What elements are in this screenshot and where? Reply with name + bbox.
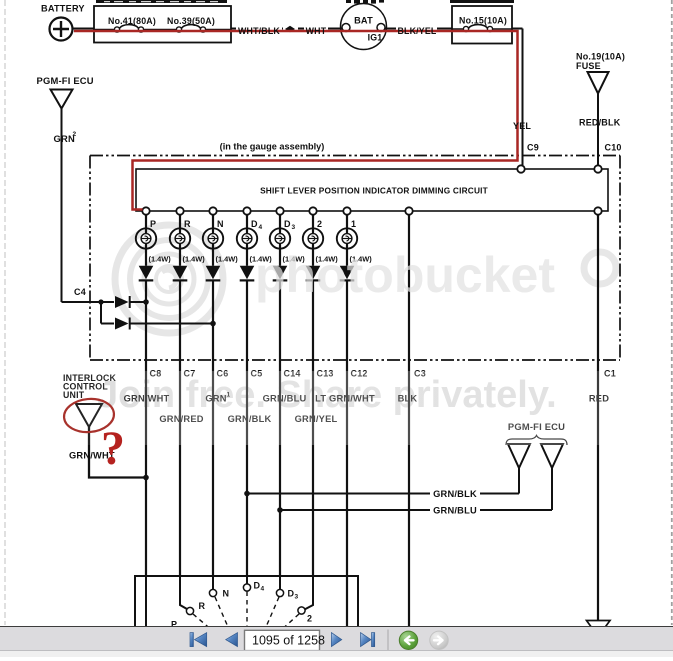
svg-text:BLK/YEL: BLK/YEL — [397, 26, 436, 36]
svg-text:R: R — [184, 219, 191, 229]
svg-text:(1.4W): (1.4W) — [216, 255, 239, 264]
svg-text:BAT: BAT — [354, 16, 373, 26]
svg-text:No.39(50A): No.39(50A) — [167, 16, 215, 26]
svg-text:N: N — [217, 219, 224, 229]
svg-text:photobucket: photobucket — [255, 247, 555, 303]
svg-text:D: D — [284, 219, 291, 229]
svg-text:2: 2 — [73, 131, 77, 138]
svg-text:2: 2 — [317, 219, 322, 229]
svg-text:3: 3 — [292, 224, 296, 231]
svg-text:C4: C4 — [74, 287, 86, 297]
svg-text:D: D — [251, 219, 258, 229]
svg-text:4: 4 — [261, 586, 265, 593]
svg-text:IG1: IG1 — [368, 33, 383, 43]
svg-text:R: R — [199, 601, 206, 611]
svg-text:?: ? — [101, 422, 125, 475]
svg-text:1095 of 1258: 1095 of 1258 — [252, 633, 325, 647]
svg-text:3: 3 — [295, 594, 299, 601]
svg-text:PGM-FI ECU: PGM-FI ECU — [37, 75, 94, 86]
svg-text:N: N — [223, 589, 230, 599]
svg-text:P: P — [150, 219, 156, 229]
svg-text:SHIFT LEVER POSITION INDICATOR: SHIFT LEVER POSITION INDICATOR DIMMING C… — [260, 186, 488, 196]
svg-text:FUSE: FUSE — [576, 61, 601, 71]
svg-text:No.41(80A): No.41(80A) — [108, 16, 156, 26]
svg-text:RED/BLK: RED/BLK — [579, 118, 621, 128]
svg-text:4: 4 — [259, 224, 263, 231]
svg-text:GRN/BLU: GRN/BLU — [433, 506, 477, 516]
svg-text:D: D — [254, 581, 261, 591]
svg-text:WHT: WHT — [306, 26, 327, 36]
svg-text:BATTERY: BATTERY — [41, 4, 85, 14]
svg-text:1: 1 — [351, 219, 356, 229]
svg-text:(1.4W): (1.4W) — [149, 255, 172, 264]
svg-text:GRN/BLK: GRN/BLK — [433, 489, 477, 499]
svg-text:D: D — [288, 589, 295, 599]
svg-text:2: 2 — [307, 614, 312, 624]
svg-text:WHT/BLK: WHT/BLK — [238, 26, 280, 36]
svg-text:(1.4W): (1.4W) — [183, 255, 206, 264]
svg-text:C10: C10 — [605, 143, 622, 153]
svg-text:No.15(10A): No.15(10A) — [459, 16, 507, 26]
svg-text:YEL: YEL — [513, 121, 531, 131]
svg-text:No.19(10A): No.19(10A) — [576, 52, 625, 62]
svg-text:C9: C9 — [527, 143, 539, 153]
svg-text:(in the gauge assembly): (in the gauge assembly) — [220, 142, 325, 152]
